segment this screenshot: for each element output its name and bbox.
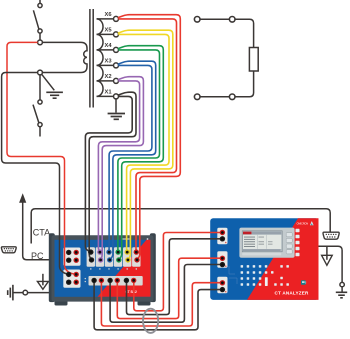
svg-text:X5: X5 <box>104 28 112 34</box>
svg-text:PC: PC <box>31 251 44 261</box>
svg-text:X2: X2 <box>104 74 111 80</box>
svg-text:X3: X3 <box>104 59 112 65</box>
svg-text:X6: X6 <box>104 12 112 18</box>
svg-text:OMICRON: OMICRON <box>297 223 309 226</box>
svg-text:CTA: CTA <box>33 228 50 238</box>
svg-text:X4: X4 <box>104 43 112 49</box>
svg-text:CT ANALYZER: CT ANALYZER <box>275 290 309 295</box>
svg-text:X1: X1 <box>104 90 112 96</box>
